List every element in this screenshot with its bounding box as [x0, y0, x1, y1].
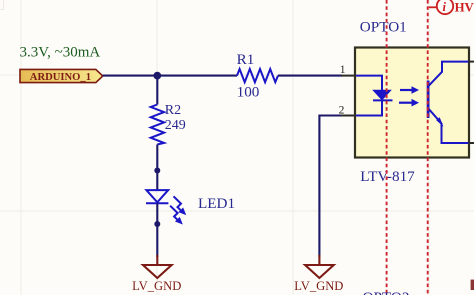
OPTO1 phototransistor: [428, 62, 474, 143]
svg-text:249: 249: [165, 118, 186, 133]
pin number 1: [340, 64, 346, 76]
resistor R2: [151, 105, 164, 145]
resistor R1: [237, 69, 278, 82]
OPTO1 designator: [360, 19, 407, 36]
junction dot LED cathode: [154, 221, 160, 227]
OPTO1 pin 2: [341, 115, 356, 117]
svg-text:LED1: LED1: [198, 195, 235, 212]
svg-text:OPTO1: OPTO1: [360, 19, 407, 36]
R2 designator: [165, 103, 181, 118]
OPTO1 comment LTV-817: [360, 168, 415, 185]
wire LED1 to ground: [156, 224, 158, 257]
OPTO1 pin 4 stub: [469, 61, 474, 63]
LED LED1: [146, 171, 186, 225]
power port LV_GND right: [294, 255, 343, 293]
svg-text:LV_GND: LV_GND: [294, 279, 343, 293]
svg-text:ARDUINO_1: ARDUINO_1: [30, 72, 91, 83]
svg-text:LV_GND: LV_GND: [132, 279, 181, 293]
wire R2 to LED1: [156, 145, 158, 171]
R1 designator: [237, 51, 255, 68]
wire port to R1: [103, 75, 237, 77]
R1 value 100: [237, 84, 260, 101]
svg-text:1: 1: [340, 64, 346, 76]
directive HV: [429, 0, 474, 14]
OPTO1 coupling arrows: [399, 86, 419, 106]
blanket dashed boundary right: [427, 0, 429, 295]
net annotation 3.3V, ~30mA: [20, 45, 101, 61]
wire R1 to OPTO1 pin 1: [278, 75, 342, 77]
blanket dashed boundary left: [386, 0, 388, 295]
opto-coupler OPTO1 body: [355, 48, 469, 158]
svg-text:2: 2: [339, 105, 345, 117]
wire pin 2 stub: [319, 116, 342, 258]
junction dot LED anode: [154, 168, 160, 174]
junction node: [153, 72, 161, 80]
OPTO1 internal LED: [356, 76, 393, 116]
light arrows: [174, 196, 182, 211]
svg-text:R2: R2: [165, 103, 181, 118]
svg-text:R1: R1: [237, 51, 255, 68]
svg-text:LTV-817: LTV-817: [360, 168, 415, 185]
svg-text:3.3V, ~30mA: 3.3V, ~30mA: [20, 45, 101, 61]
power port LV_GND left: [132, 255, 181, 293]
R2 value 249: [165, 118, 186, 133]
svg-text:100: 100: [237, 84, 260, 101]
designator OPTO2 (clipped at bottom): [363, 289, 410, 295]
svg-text:HV: HV: [455, 0, 474, 14]
OPTO1 pin 3 stub: [469, 142, 474, 144]
pin number 2: [339, 105, 345, 117]
port ARDUINO_1: [20, 69, 103, 83]
svg-text:OPTO2: OPTO2: [363, 289, 410, 295]
wire junction to R2: [156, 76, 158, 105]
red mark right edge: [471, 280, 474, 290]
OPTO1 pin 1: [341, 75, 356, 77]
LED1 designator: [198, 195, 235, 212]
svg-text:i: i: [443, 0, 447, 14]
